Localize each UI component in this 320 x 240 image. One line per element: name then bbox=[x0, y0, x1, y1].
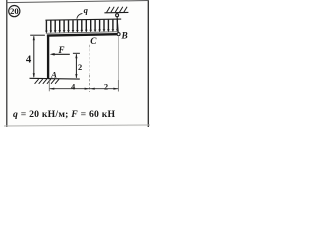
svg-text:20: 20 bbox=[10, 6, 19, 16]
svg-text:2: 2 bbox=[78, 63, 82, 72]
svg-text:q = 20 кН/м; F = 60 кН: q = 20 кН/м; F = 60 кН bbox=[13, 109, 116, 120]
svg-text:F: F bbox=[57, 45, 64, 55]
svg-text:2: 2 bbox=[104, 82, 108, 91]
svg-text:4: 4 bbox=[71, 82, 75, 91]
svg-text:A: A bbox=[50, 70, 57, 80]
svg-text:q: q bbox=[84, 5, 89, 15]
svg-text:B: B bbox=[120, 32, 127, 42]
svg-text:4: 4 bbox=[26, 53, 32, 65]
svg-text:C: C bbox=[90, 36, 97, 46]
